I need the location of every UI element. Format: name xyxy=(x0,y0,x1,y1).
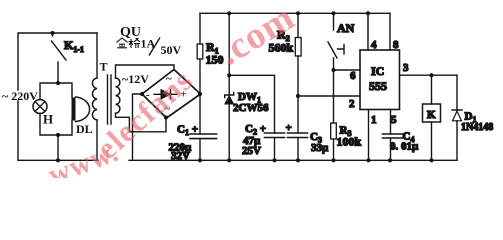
zener DW1 line xyxy=(228,13,230,95)
relay K coil xyxy=(431,75,433,104)
svg-text:0. 01μ: 0. 01μ xyxy=(390,141,419,153)
node: bridge right corner xyxy=(198,92,202,96)
svg-text:3: 3 xyxy=(403,62,409,74)
node: pin 6 node junction xyxy=(331,68,335,72)
node: AN top rail junction xyxy=(331,11,335,15)
svg-text:K1-1: K1-1 xyxy=(64,38,84,54)
node: bridge left corner xyxy=(140,92,144,96)
node: C3 bottom rail junction xyxy=(296,158,300,162)
wire: secondary bottom staircase to bridge bottom corner xyxy=(116,113,167,132)
capacitor C4 xyxy=(383,134,405,138)
svg-text:8: 8 xyxy=(393,39,399,51)
wire: primary side down from top rail xyxy=(96,33,98,78)
pin 8 wire xyxy=(389,13,391,50)
svg-text:100k: 100k xyxy=(337,135,362,149)
node: box bottom junction xyxy=(56,133,60,137)
wire: lamp/bell parallel box xyxy=(40,83,72,135)
wire: plus vertical R1/C1 line xyxy=(199,13,201,44)
svg-text:IC: IC xyxy=(371,64,384,78)
wire: box bottom to bottom rail xyxy=(57,135,59,160)
svg-text:~12V: ~12V xyxy=(122,72,149,86)
node: bridge bottom corner xyxy=(164,115,168,119)
node A: junction on 220V top rail xyxy=(50,31,54,35)
wire: secondary top to bridge top corner xyxy=(116,65,175,78)
node: C1 top on rail xyxy=(198,158,202,162)
pin 1 wire xyxy=(368,110,370,161)
transformer T primary winding xyxy=(92,78,97,120)
svg-text:5: 5 xyxy=(391,114,397,126)
svg-text:1N4148: 1N4148 xyxy=(461,122,493,133)
svg-text:T: T xyxy=(100,60,108,74)
bell DL xyxy=(72,98,76,121)
svg-text:4: 4 xyxy=(371,39,377,51)
switch K1-1 xyxy=(52,33,54,36)
svg-text:2: 2 xyxy=(349,98,355,110)
node: bottom rail junction xyxy=(56,158,60,162)
node: R3 bottom rail junction xyxy=(331,158,335,162)
switch AN xyxy=(333,13,335,30)
capacitor C3 xyxy=(288,133,308,138)
node: zener top rail junction xyxy=(227,11,231,15)
wire: R2/C3 vertical xyxy=(297,13,299,37)
top positive rail xyxy=(200,12,390,14)
node: zener to C2 branch junction xyxy=(227,73,231,77)
resistor R1 xyxy=(197,44,203,59)
diode D1 xyxy=(456,75,458,110)
zener DW1 symbol xyxy=(225,93,234,98)
svg-text:QU: QU xyxy=(120,25,141,40)
capacitor C1 xyxy=(190,134,217,139)
wire: primary bottom to bottom rail xyxy=(97,120,98,160)
svg-text:+: + xyxy=(286,122,292,134)
svg-text:C1 +: C1 + xyxy=(177,124,198,138)
label 金桥1A (bridge spec, hand-drawn glyphs) xyxy=(117,38,141,48)
pin 5 wire + C4 xyxy=(390,110,392,135)
capacitor C2 xyxy=(265,133,285,138)
resistor R2 xyxy=(295,38,301,57)
svg-text:H: H xyxy=(43,112,53,127)
wire: 220V outer loop left lower xyxy=(18,101,98,160)
wire: bridge left corner to ground rail xyxy=(133,94,143,160)
svg-text:K: K xyxy=(427,109,436,121)
svg-text:2CW56: 2CW56 xyxy=(233,102,269,114)
wire: pin 3 output horizontal xyxy=(400,74,458,76)
svg-text:555: 555 xyxy=(369,79,387,93)
svg-text:AN: AN xyxy=(337,21,355,35)
svg-text:33μ: 33μ xyxy=(311,142,329,154)
op: IC 555 box U1 xyxy=(360,50,400,110)
node: C2 bottom rail junction xyxy=(272,158,276,162)
wire: branch to C2 xyxy=(229,75,274,133)
svg-text:~ 220V: ~ 220V xyxy=(2,89,38,103)
pin 4 wire xyxy=(367,13,369,50)
resistor R3 xyxy=(331,123,337,139)
main bottom ground rail xyxy=(129,159,457,161)
transformer core xyxy=(108,75,112,124)
node: R2 top rail junction xyxy=(296,11,300,15)
wire: pin 2 horizontal xyxy=(298,95,360,97)
wire: AN node down through R3 to ground xyxy=(333,70,335,123)
label /50V with slash xyxy=(149,38,160,56)
svg-text:DL: DL xyxy=(76,122,93,136)
diode inside bridge xyxy=(154,93,177,95)
transformer T secondary winding xyxy=(116,78,120,113)
svg-text:.com: .com xyxy=(211,0,302,74)
node: zener bottom rail junction xyxy=(227,158,231,162)
wire: pin 6 horizontal xyxy=(334,69,361,71)
rectifier QU bridge diamond xyxy=(142,70,201,119)
svg-text:50V: 50V xyxy=(161,43,182,57)
svg-text:6: 6 xyxy=(350,70,356,82)
node: pin2 node junction xyxy=(296,94,300,98)
svg-text:25V: 25V xyxy=(242,145,261,157)
wire: 220V outer loop left+top xyxy=(18,33,97,90)
node: box top junction xyxy=(56,81,60,85)
lamp H xyxy=(33,100,47,114)
svg-text:32V: 32V xyxy=(171,150,190,162)
svg-text:1: 1 xyxy=(371,114,377,126)
